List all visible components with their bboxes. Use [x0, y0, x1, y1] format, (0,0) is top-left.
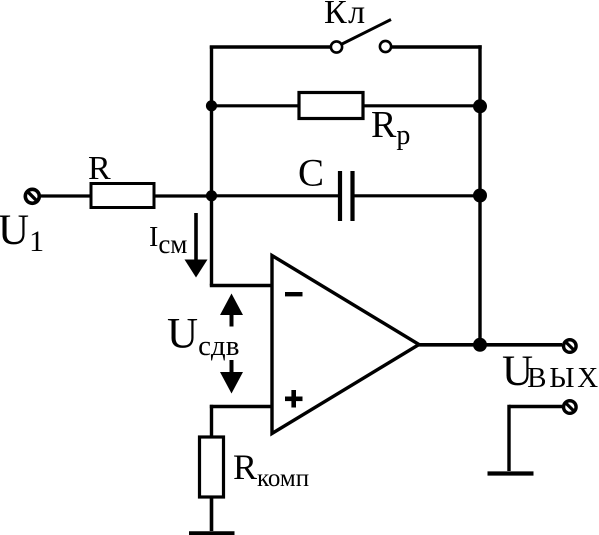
- wire C row right: [354, 194, 480, 197]
- wire Rp row right: [363, 104, 480, 107]
- node dot right C row: [473, 189, 487, 203]
- wire top row left: [210, 45, 330, 48]
- left vertical bus wire: [210, 46, 213, 286]
- svg-text:C: C: [298, 152, 324, 195]
- switch Кл: [331, 20, 391, 53]
- node dot right Rp row: [473, 99, 487, 113]
- wire to inverting input: [210, 284, 272, 287]
- capacitor C: [340, 171, 353, 221]
- wire down to Rкомп: [210, 405, 213, 437]
- op-amp U1 (triangle): [272, 256, 419, 434]
- output node dot: [473, 338, 487, 352]
- offset arrow up (Uсдв): [220, 294, 243, 327]
- op-amp minus sign: [285, 292, 303, 296]
- resistor Rp: [299, 93, 363, 119]
- op-amp plus sign: [285, 390, 303, 408]
- lower output terminal: [564, 401, 577, 414]
- svg-text:Кл: Кл: [324, 0, 367, 31]
- wire C row left: [212, 194, 340, 197]
- resistor Rкомп: [200, 437, 224, 497]
- current arrow Iсм: [185, 213, 208, 278]
- output terminal: [564, 340, 577, 353]
- offset arrow down (Uсдв): [220, 360, 243, 394]
- svg-text:R: R: [88, 150, 111, 187]
- wire R to node A: [154, 194, 213, 197]
- node dot left Rp row: [206, 100, 217, 111]
- wire to non-inverting input: [210, 405, 272, 408]
- node A dot (C row): [206, 190, 217, 201]
- right vertical bus wire: [478, 45, 481, 344]
- ground (right): [488, 471, 534, 475]
- wire top row right: [392, 45, 482, 48]
- resistor R: [91, 184, 154, 208]
- input terminal U1: [25, 189, 39, 203]
- wire Rp row left: [212, 104, 300, 107]
- ground (left): [189, 531, 235, 535]
- wire terminal to ground (right): [509, 405, 562, 471]
- wire terminal to R: [40, 194, 92, 197]
- output wire: [418, 343, 562, 347]
- wire Rкомп to ground: [210, 497, 214, 531]
